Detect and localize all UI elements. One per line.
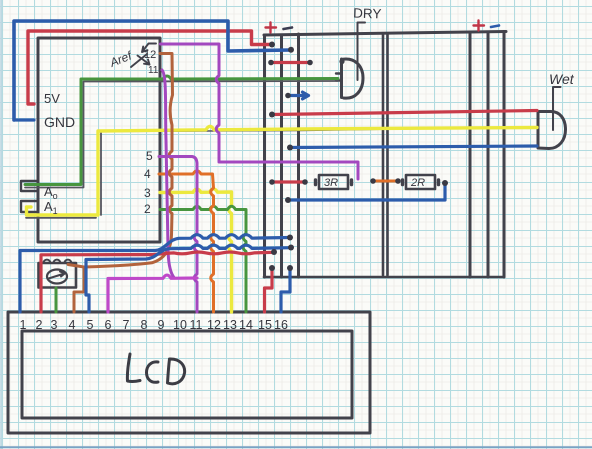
svg-text:5V: 5V <box>44 91 60 106</box>
svg-text:GND: GND <box>44 114 75 130</box>
svg-text:2: 2 <box>36 318 43 332</box>
svg-text:16: 16 <box>274 318 288 332</box>
svg-text:5: 5 <box>146 149 153 163</box>
svg-text:DRY: DRY <box>353 6 382 22</box>
svg-text:14: 14 <box>239 318 253 332</box>
svg-text:13: 13 <box>223 318 237 332</box>
svg-text:8: 8 <box>141 318 148 332</box>
svg-text:2R: 2R <box>410 177 425 189</box>
svg-text:3: 3 <box>144 186 151 200</box>
svg-text:4: 4 <box>144 167 151 181</box>
svg-text:10: 10 <box>173 318 187 332</box>
svg-text:2: 2 <box>144 202 151 216</box>
svg-text:11: 11 <box>190 318 203 332</box>
svg-text:11: 11 <box>148 65 159 76</box>
svg-text:Wet: Wet <box>549 71 575 87</box>
svg-text:6: 6 <box>105 318 112 332</box>
svg-text:5: 5 <box>87 318 94 332</box>
svg-text:3: 3 <box>51 318 58 332</box>
svg-text:12: 12 <box>207 318 221 332</box>
svg-text:1: 1 <box>20 318 27 332</box>
svg-text:4: 4 <box>69 318 76 332</box>
svg-text:12: 12 <box>144 49 156 61</box>
svg-text:9: 9 <box>158 318 165 332</box>
svg-text:3R: 3R <box>324 177 338 189</box>
svg-text:7: 7 <box>123 318 130 332</box>
svg-text:15: 15 <box>258 318 272 332</box>
